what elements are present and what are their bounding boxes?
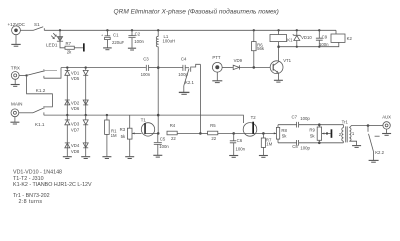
svg-text:VD4: VD4 bbox=[71, 143, 80, 148]
terminator bar (R7 return) bbox=[83, 43, 85, 51]
ground (under C6) bbox=[229, 156, 238, 158]
potentiometer R9 bbox=[309, 125, 330, 143]
relay contact K2.1 bbox=[184, 64, 201, 92]
capacitor C7 bbox=[278, 115, 343, 128]
svg-text:100n: 100n bbox=[159, 144, 169, 149]
svg-text:VD5: VD5 bbox=[71, 76, 80, 81]
relay contact K2.2 bbox=[368, 126, 385, 161]
relay contact K1.1 bbox=[33, 106, 45, 127]
connector TRX bbox=[11, 66, 26, 80]
node dots diode top rail bbox=[66, 66, 68, 68]
node K1 bottom bbox=[277, 45, 280, 48]
svg-text:K2.1: K2.1 bbox=[185, 80, 194, 85]
capacitor C1 bbox=[101, 29, 125, 48]
node drain rail tap bbox=[157, 114, 160, 117]
relay coil K1 bbox=[270, 29, 293, 47]
svg-text:K1: K1 bbox=[287, 38, 293, 43]
ground (under R3) bbox=[125, 157, 134, 159]
svg-text:C1: C1 bbox=[113, 32, 119, 37]
diode VD4 bbox=[65, 143, 80, 148]
diode VD7 bbox=[71, 115, 88, 156]
svg-text:VD7: VD7 bbox=[71, 127, 80, 132]
svg-text:TRX: TRX bbox=[11, 66, 20, 71]
ground (under C2) bbox=[128, 48, 136, 50]
relay coil K2 bbox=[331, 30, 352, 42]
svg-text:MAIN: MAIN bbox=[11, 101, 22, 106]
svg-text:R8: R8 bbox=[281, 128, 287, 133]
node AUX line bbox=[367, 124, 370, 127]
ground (under C5) bbox=[153, 155, 162, 157]
transformer Tr1 bbox=[339, 119, 368, 145]
svg-text:100n: 100n bbox=[134, 39, 144, 44]
wire K2.1 to mix node bbox=[199, 64, 201, 133]
wire diode bank top rail bbox=[61, 67, 146, 69]
svg-text:C6: C6 bbox=[237, 138, 243, 143]
svg-text:R4: R4 bbox=[170, 123, 176, 128]
svg-text:VD8: VD8 bbox=[71, 149, 80, 154]
svg-text:LED1: LED1 bbox=[46, 42, 58, 47]
svg-text:VD1-VD10 - 1N4148: VD1-VD10 - 1N4148 bbox=[13, 170, 62, 176]
capacitor C2 bbox=[128, 29, 144, 48]
node C3/C4 bbox=[157, 66, 160, 69]
connector MAIN bbox=[11, 101, 33, 116]
svg-text:100n: 100n bbox=[319, 42, 329, 47]
svg-text:R5: R5 bbox=[210, 123, 216, 128]
svg-text:100uH: 100uH bbox=[163, 39, 176, 44]
svg-text:5k: 5k bbox=[282, 134, 287, 139]
svg-text:+: + bbox=[101, 33, 104, 37]
svg-text:1: 1 bbox=[352, 131, 355, 136]
ground (under R1) bbox=[102, 157, 111, 159]
svg-text:100p: 100p bbox=[300, 116, 310, 121]
svg-text:K1.2: K1.2 bbox=[36, 88, 46, 93]
svg-text:100n: 100n bbox=[141, 72, 151, 77]
capacitor C5 bbox=[154, 133, 170, 155]
ground (under K2.2) bbox=[369, 160, 379, 162]
node dots signal rail bbox=[66, 114, 68, 116]
svg-text:S1: S1 bbox=[34, 22, 40, 27]
connector AUX bbox=[368, 115, 391, 130]
node TRX junction bbox=[26, 74, 28, 76]
node LED tap bbox=[59, 29, 61, 31]
svg-text:C2: C2 bbox=[135, 31, 141, 36]
svg-text:PTT: PTT bbox=[212, 55, 220, 60]
svg-text:VD6: VD6 bbox=[71, 106, 80, 111]
ground (diode col 1) bbox=[63, 157, 72, 159]
title bbox=[114, 7, 279, 15]
diode VD10 bbox=[293, 29, 313, 48]
svg-text:K2.2: K2.2 bbox=[375, 150, 384, 155]
node VT1 base bbox=[253, 66, 256, 69]
svg-text:R9: R9 bbox=[309, 128, 315, 133]
inductor L1 bbox=[156, 29, 175, 68]
node T1 source bbox=[157, 132, 160, 135]
ground (diode col 2) bbox=[81, 157, 90, 159]
svg-text:QRM Eliminator X-phase (Фазовы: QRM Eliminator X-phase (Фазовый подавите… bbox=[114, 7, 279, 15]
svg-text:Tr1 - BN73-202: Tr1 - BN73-202 bbox=[13, 193, 50, 199]
ground (under Tr1 winding 1) bbox=[352, 146, 361, 148]
svg-text:5k: 5k bbox=[121, 134, 126, 139]
ground (under AUX) bbox=[382, 129, 391, 135]
svg-text:22: 22 bbox=[171, 136, 176, 141]
svg-text:T1-T2 - J310: T1-T2 - J310 bbox=[13, 176, 44, 182]
node mix M bbox=[199, 132, 202, 135]
node C7/R9 bbox=[318, 123, 321, 126]
svg-text:100p: 100p bbox=[300, 145, 310, 150]
svg-text:100n: 100n bbox=[236, 147, 246, 152]
svg-text:22: 22 bbox=[211, 136, 216, 141]
svg-text:VD3: VD3 bbox=[71, 121, 80, 126]
svg-text:R7: R7 bbox=[66, 41, 72, 46]
svg-text:C4: C4 bbox=[181, 56, 187, 61]
svg-text:C8: C8 bbox=[292, 144, 298, 149]
terminator bar (R9 wiper) bbox=[331, 129, 333, 138]
relay contact K1.2 bbox=[28, 68, 61, 94]
diode VD2 bbox=[65, 100, 80, 105]
potentiometer R8 bbox=[274, 125, 288, 143]
wire TRX bypass to K1.1 bbox=[27, 76, 53, 107]
resistor R7 (LED series) bbox=[65, 41, 83, 54]
diode VD6 bbox=[71, 100, 88, 111]
diode VD3 bbox=[65, 115, 80, 156]
LED1 bbox=[46, 30, 65, 48]
capacitor C4 bbox=[158, 56, 189, 77]
connector PTT bbox=[212, 55, 233, 72]
potentiometer R3 bbox=[120, 115, 142, 156]
svg-text:C5: C5 bbox=[160, 136, 166, 141]
ground (under PTT) bbox=[212, 72, 222, 82]
resistor R5 bbox=[200, 123, 233, 141]
svg-text:C7: C7 bbox=[292, 115, 298, 120]
transistor VT1 bbox=[270, 47, 291, 80]
svg-text:5k: 5k bbox=[310, 134, 315, 139]
switch S1 bbox=[34, 22, 45, 31]
wire source rail through T2 bbox=[234, 132, 277, 134]
resistor R6 bbox=[252, 29, 265, 67]
svg-text:2: 2 bbox=[339, 132, 342, 137]
diode VD5 bbox=[71, 68, 88, 116]
svg-text:AUX: AUX bbox=[382, 115, 391, 120]
svg-text:T1: T1 bbox=[141, 117, 147, 122]
transistor T2 bbox=[243, 115, 257, 136]
svg-text:K1-K2 - TIANBO HJR1-2C L-12V: K1-K2 - TIANBO HJR1-2C L-12V bbox=[13, 182, 92, 188]
wire top +12V rail bbox=[44, 29, 336, 31]
svg-text:VD1: VD1 bbox=[71, 70, 80, 75]
diode VD9 bbox=[233, 58, 270, 70]
ground (under TRX) bbox=[11, 79, 20, 86]
svg-text:2:8 turns: 2:8 turns bbox=[19, 199, 43, 205]
capacitor C6 bbox=[230, 132, 246, 155]
svg-text:1M: 1M bbox=[266, 141, 272, 146]
svg-text:K2: K2 bbox=[347, 36, 353, 41]
svg-text:220uF: 220uF bbox=[112, 40, 125, 45]
svg-text:1M: 1M bbox=[111, 133, 117, 138]
node C8/R9 bbox=[318, 142, 321, 145]
resistor R1 bbox=[105, 115, 118, 156]
svg-text:VD10: VD10 bbox=[301, 35, 312, 40]
diode VD1 bbox=[65, 68, 80, 116]
transistor T1 bbox=[141, 117, 158, 136]
diode VD8 bbox=[71, 143, 88, 154]
wire signal rail (MAIN node) bbox=[44, 115, 244, 123]
resistor R7 (T2 gate) bbox=[261, 132, 272, 155]
svg-text:VT1: VT1 bbox=[283, 58, 291, 63]
svg-text:2k: 2k bbox=[67, 50, 72, 55]
svg-text:56k: 56k bbox=[257, 46, 265, 51]
svg-text:VD2: VD2 bbox=[71, 100, 80, 105]
svg-text:K1.1: K1.1 bbox=[35, 122, 45, 127]
svg-text:C3: C3 bbox=[143, 56, 149, 61]
ground (under +12VDC) bbox=[11, 35, 20, 47]
resistor R4 bbox=[167, 123, 200, 141]
capacitor C3 bbox=[141, 56, 159, 77]
ground (under R7) bbox=[259, 156, 268, 158]
wire node vertical (L1/C3/C4 node down) bbox=[157, 68, 159, 134]
ground (under C1) bbox=[103, 48, 112, 50]
capacitor C9 bbox=[316, 29, 329, 48]
svg-text:Tr1: Tr1 bbox=[342, 119, 349, 124]
svg-text:T2: T2 bbox=[251, 115, 257, 120]
ground (under K2.1) bbox=[179, 92, 190, 94]
svg-text:C9: C9 bbox=[322, 34, 328, 39]
connector +12VDC bbox=[8, 22, 34, 35]
ground (under MAIN) bbox=[10, 117, 19, 124]
ground (under VT1) bbox=[274, 80, 283, 82]
capacitor C8 bbox=[278, 140, 343, 150]
svg-text:VD9: VD9 bbox=[234, 58, 243, 63]
svg-text:R3: R3 bbox=[120, 127, 126, 132]
wire relay bottom bus bbox=[279, 42, 339, 46]
parts list text bbox=[13, 170, 92, 206]
